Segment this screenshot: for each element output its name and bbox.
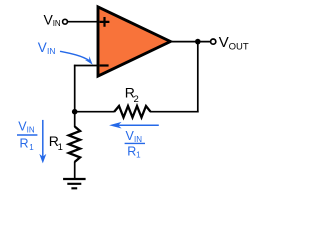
junction node inverting — [72, 109, 78, 115]
wire VIN terminal to + input — [67, 21, 97, 23]
svg-text:1: 1 — [29, 143, 34, 152]
svg-text:1: 1 — [136, 151, 141, 160]
svg-text:R: R — [127, 144, 136, 158]
op-amp plus input symbol — [100, 17, 110, 27]
svg-text:OUT: OUT — [229, 42, 249, 53]
svg-text:IN: IN — [27, 125, 35, 134]
wire inverting input horizontal — [74, 65, 97, 67]
wire R1 top — [74, 112, 76, 127]
svg-text:V: V — [38, 40, 47, 55]
ground — [63, 179, 86, 188]
blue arrow VIN to inverting input — [60, 51, 89, 60]
terminal circle VOUT — [211, 39, 216, 44]
resistor R1 — [69, 127, 80, 162]
svg-text:V: V — [219, 34, 229, 51]
terminal circle VIN — [63, 19, 68, 24]
svg-text:IN: IN — [134, 135, 142, 144]
junction node output — [195, 39, 201, 45]
svg-text:1: 1 — [58, 142, 63, 153]
resistor R2 — [114, 106, 150, 117]
wire feedback right vertical — [197, 42, 199, 113]
wire feedback bottom right segment — [150, 111, 199, 113]
op-amp U1 — [98, 7, 170, 76]
blue down arrow (current through R1) — [42, 120, 44, 158]
wire R1 bottom — [74, 162, 76, 180]
svg-text:2: 2 — [134, 94, 139, 105]
svg-text:IN: IN — [47, 46, 56, 56]
wire inverting input vertical — [74, 65, 76, 113]
blue left arrow (current through R2) — [116, 124, 159, 126]
wire feedback bottom left segment — [74, 111, 115, 113]
op-amp minus input symbol — [100, 64, 109, 66]
wire output — [170, 41, 211, 43]
svg-text:R: R — [20, 136, 29, 150]
svg-text:IN: IN — [53, 19, 61, 28]
